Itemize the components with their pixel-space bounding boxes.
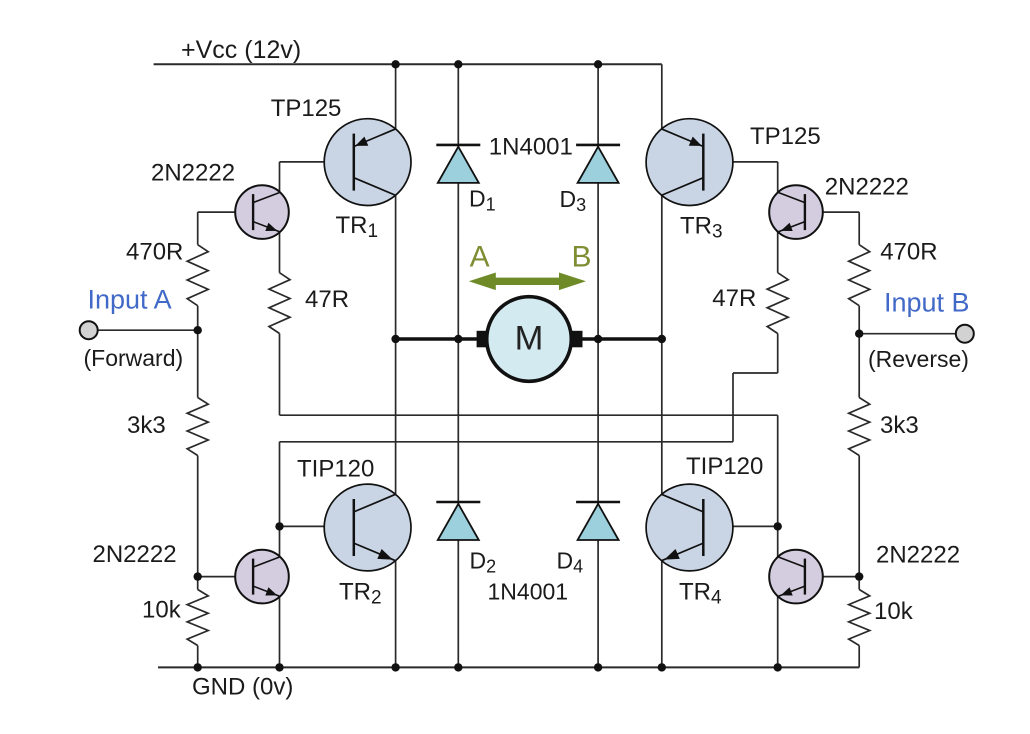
transistor Q4 2N2222 bottom-right [769,550,823,604]
wire base of top-left 2N2222 down to 470R [197,212,199,245]
wire base top-left 2N2222 [198,211,254,213]
wire down to TR4 base node [777,415,779,526]
node GND-2N2222 right [774,663,782,671]
diode D2 [436,502,480,540]
svg-text:2N2222: 2N2222 [876,541,960,568]
wire motor (thick) [396,337,662,340]
transistor Q3 2N2222 bottom-left [235,550,289,604]
svg-text:10k: 10k [874,598,914,625]
wire TR4 base [704,525,778,527]
node TR2 base [275,522,283,530]
svg-text:Input B: Input B [884,287,970,317]
svg-text:TIP120: TIP120 [686,453,763,480]
wire base bottom-left 2N2222 [198,576,254,578]
resistor 470R left [187,245,208,306]
direction arrow A-B [469,273,586,291]
wire base of top-right 2N2222 down to 470R [858,212,860,245]
svg-text:TP125: TP125 [271,95,342,122]
wire TR1/TR2 vertical [395,64,397,667]
wire 3k3 to divider node right [858,456,860,590]
svg-text:B: B [572,240,592,273]
wire GND rail [158,666,859,668]
wire jog vertical [732,373,734,442]
svg-text:3k3: 3k3 [880,412,919,439]
svg-text:(Reverse): (Reverse) [868,346,969,372]
transistor TR4 (TIP120 NPN) [646,484,733,571]
svg-text:47R: 47R [712,285,756,312]
resistor 47R right [767,273,788,334]
node GND-2N2222 left [275,663,283,671]
node divider left [194,572,202,580]
node Input A [194,326,202,334]
svg-text:TIP120: TIP120 [297,456,374,483]
transistor Q1 2N2222 top-left [235,185,289,239]
svg-text:(Forward): (Forward) [84,345,184,371]
wire base top-right 2N2222 [805,211,859,213]
resistor 470R right [849,245,870,306]
wire 10k to GND [197,646,199,668]
wire Input A [98,329,198,331]
wire 470R to Input A node [197,306,199,398]
wire cross A (left 47R to TR4 base) [280,414,778,416]
node GND-TR4 [658,663,666,671]
resistor 3k3 right [849,398,870,456]
wire jog horizontal [733,372,778,374]
wire to TR2 base [280,525,355,527]
wire +Vcc rail [154,63,662,65]
wire D1/D2 vertical [457,64,459,667]
terminal Input B [956,325,974,343]
diode D3 [576,145,620,183]
node GND-D2 [454,663,462,671]
resistor 10k left [187,590,208,646]
wire to TR1 base [280,161,355,163]
svg-text:47R: 47R [305,286,349,313]
node Vcc-D3 [594,60,602,68]
node Input B [855,330,863,338]
node divider right [855,572,863,580]
wire TR3/TR4 vertical [661,64,663,667]
wire TR2 base column down to GND [279,442,281,668]
wire TR3 base / 2N2222 column right [777,162,779,273]
svg-text:1N4001: 1N4001 [488,579,569,605]
svg-text:470R: 470R [126,239,183,266]
wire 3k3 to divider node left [197,456,199,590]
node GND-D4 [594,663,602,671]
node GND-TR2 [391,663,399,671]
diode D1 [436,145,480,183]
wire base bottom-right 2N2222 [805,576,859,578]
wire 47R left down [279,334,281,416]
resistor 3k3 left [187,398,208,456]
transistor TR2 (TIP120 NPN) [324,484,411,571]
transistor Q2 2N2222 top-right [769,185,823,239]
svg-text:2N2222: 2N2222 [825,174,909,201]
resistor 47R left [269,273,290,334]
svg-text:+Vcc (12v): +Vcc (12v) [181,36,301,64]
node Vcc-TR1 [391,60,399,68]
terminal Input A [80,321,98,339]
node TR4 base [774,522,782,530]
wire D3/D4 vertical [597,64,599,667]
svg-text:GND (0v): GND (0v) [192,674,293,701]
diode D4 [576,502,620,540]
wire Input B [859,333,956,335]
node GND-10k left [194,663,202,671]
wire TR4 base node through 2N2222 down to GND [777,526,779,667]
motor M [477,297,583,382]
svg-text:Input A: Input A [88,284,172,314]
wire to TR3 base [704,161,778,163]
transistor TR3 (TP125 PNP) [646,119,733,206]
svg-text:1N4001: 1N4001 [489,134,573,161]
transistor TR1 (TP125 PNP) [324,119,411,206]
node motor-D1 [454,335,462,343]
svg-text:M: M [515,320,544,358]
wire cross B (right 47R to TR2 base) [280,441,734,443]
svg-text:470R: 470R [880,239,937,266]
wire 10k to GND right [858,646,860,668]
resistor 10k right [849,590,870,646]
svg-text:2N2222: 2N2222 [93,541,177,568]
svg-text:10k: 10k [142,597,182,624]
svg-text:A: A [470,240,490,273]
wire TR1 base / 2N2222 collector-emitter column left [279,162,281,273]
wire 470R to Input B node [858,306,860,398]
wire 47R right down [777,334,779,374]
node motor-right [658,335,666,343]
node motor-D3 [594,335,602,343]
node motor-left [391,335,399,343]
node Vcc-D1 [454,60,462,68]
svg-text:TP125: TP125 [750,123,821,150]
svg-text:2N2222: 2N2222 [151,160,235,187]
svg-text:3k3: 3k3 [127,412,166,439]
